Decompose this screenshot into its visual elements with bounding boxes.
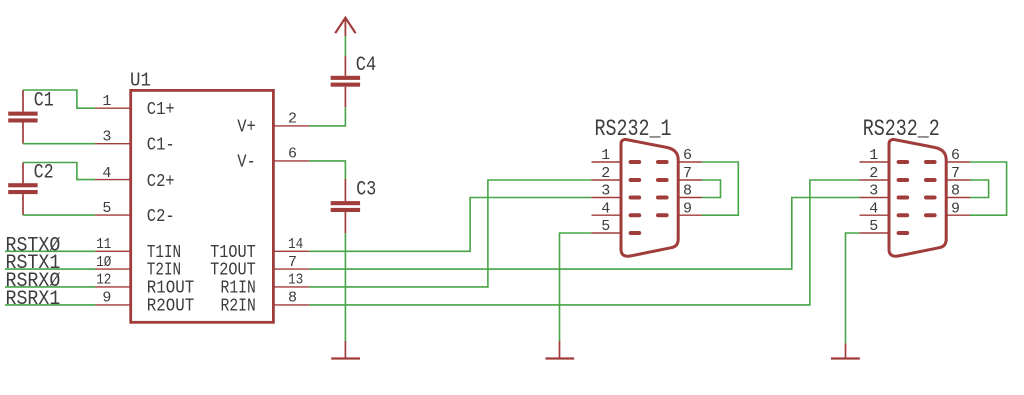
- RS232_1 pad 4: [629, 213, 642, 217]
- U1 label: [130, 70, 151, 92]
- pin 14 number: [288, 236, 303, 253]
- svg-text:3: 3: [102, 129, 111, 146]
- RS232_2 pin 6 number: [951, 147, 960, 164]
- net label RSRX1: [6, 288, 61, 311]
- wire RS232_2 pin5 to ground: [846, 233, 860, 344]
- svg-text:1: 1: [102, 93, 111, 110]
- C1 label: [34, 90, 54, 113]
- wire pin13 to RS232_1 pin2: [310, 180, 592, 287]
- wire RS232_2 jumper pins 7-8: [970, 180, 989, 198]
- pin 5 stub: [95, 214, 131, 216]
- svg-text:RSRX1: RSRX1: [6, 288, 61, 311]
- net label RSTX1: [6, 252, 61, 275]
- RS232_1 pin 3 number: [601, 183, 610, 200]
- ground below RS232_2: [831, 344, 860, 359]
- svg-text:1Ø: 1Ø: [96, 254, 111, 271]
- RS232_2 pin 4 stub: [860, 214, 890, 216]
- svg-text:9: 9: [102, 290, 111, 307]
- svg-text:7: 7: [288, 254, 297, 271]
- svg-text:V+: V+: [237, 117, 256, 138]
- RS232_2 pin 3 number: [869, 183, 878, 200]
- RS232_2 pad 7: [924, 178, 937, 182]
- RS232_2 pin 4 number: [869, 200, 878, 217]
- RS232_2 pad 5: [897, 231, 910, 235]
- RS232_1 pin 1 number: [601, 147, 610, 164]
- RS232_1 pin 6 stub: [678, 161, 702, 163]
- svg-text:2: 2: [288, 111, 297, 128]
- U1 pin name R1OUT: [147, 277, 194, 298]
- svg-text:11: 11: [96, 236, 111, 253]
- svg-text:9: 9: [683, 200, 692, 217]
- svg-text:7: 7: [951, 165, 960, 182]
- RS232_1 pin 7 stub: [678, 179, 702, 181]
- svg-text:R2IN: R2IN: [221, 295, 256, 316]
- RS232_2 pin 7 stub: [946, 179, 970, 181]
- connector RS232_1 body: [621, 139, 678, 256]
- U1 pin name T1IN: [147, 242, 181, 263]
- svg-text:8: 8: [288, 290, 297, 307]
- svg-text:5: 5: [869, 218, 878, 235]
- RS232_1 pin 2 number: [601, 165, 610, 182]
- C2 label: [34, 161, 54, 184]
- wire RS232_1 pin5 to ground: [560, 233, 592, 341]
- U1 pin name V+: [237, 117, 256, 138]
- RS232_1 pin 5 stub: [592, 232, 622, 234]
- svg-text:V-: V-: [237, 152, 256, 173]
- pin 3 number: [102, 129, 111, 146]
- U1 pin name T1OUT: [210, 242, 256, 263]
- pin 9 number: [102, 290, 111, 307]
- RS232_1 pad 2: [629, 178, 642, 182]
- svg-text:13: 13: [288, 272, 303, 289]
- RS232_1 pin 5 number: [601, 218, 610, 235]
- svg-text:C2: C2: [34, 161, 54, 184]
- wire RSTX0 to pin11: [5, 250, 96, 252]
- RS232_1 label: [595, 116, 672, 142]
- RS232_1 pin 6 number: [683, 147, 692, 164]
- RS232_2 pad 9: [924, 213, 937, 217]
- U1 pin name C1-: [147, 135, 175, 156]
- RS232_1 pin 9 number: [683, 200, 692, 217]
- svg-text:2: 2: [869, 165, 878, 182]
- svg-text:3: 3: [601, 183, 610, 200]
- svg-text:4: 4: [601, 200, 610, 217]
- pin 12 number: [96, 272, 111, 289]
- svg-text:9: 9: [951, 200, 960, 217]
- pin 5 number: [102, 200, 111, 217]
- IC U1 box: [131, 90, 274, 322]
- svg-text:5: 5: [601, 218, 610, 235]
- wire RSRX1 to pin9: [5, 304, 96, 306]
- RS232_2 pin 8 number: [951, 183, 960, 200]
- wire RS232_1 jumper pins 7-8: [702, 180, 721, 198]
- svg-text:8: 8: [951, 183, 960, 200]
- VCC supply symbol: [335, 18, 355, 37]
- RS232_2 pad 1: [897, 160, 910, 164]
- pin 3 stub: [95, 143, 131, 145]
- RS232_1 pad 5: [629, 231, 642, 235]
- RS232_1 pin 1 stub: [592, 161, 622, 163]
- pin 1 stub: [95, 107, 131, 109]
- RS232_1 pad 3: [629, 196, 642, 200]
- svg-text:U1: U1: [130, 70, 151, 92]
- U1 pin name C2+: [147, 171, 175, 192]
- svg-text:3: 3: [869, 183, 878, 200]
- RS232_2 pin 7 number: [951, 165, 960, 182]
- net label RSRX0: [6, 270, 61, 293]
- svg-text:C1-: C1-: [147, 135, 175, 156]
- RS232_2 pin 5 stub: [860, 232, 890, 234]
- capacitor C3: [331, 179, 360, 233]
- RS232_2 pin 5 number: [869, 218, 878, 235]
- ground below RS232_1: [545, 341, 574, 359]
- pin 6 stub: [273, 160, 309, 162]
- svg-text:C1+: C1+: [147, 99, 175, 120]
- wire pin6 to C3: [310, 161, 346, 179]
- connector RS232_2 body: [889, 139, 946, 256]
- U1 pin name V-: [237, 152, 256, 173]
- svg-text:C4: C4: [356, 54, 377, 77]
- svg-text:C1: C1: [34, 90, 54, 113]
- RS232_2 pin 3 stub: [860, 197, 890, 199]
- wire C2 top to pin4: [23, 163, 95, 180]
- RS232_1 pin 7 number: [683, 165, 692, 182]
- U1 pin name R2IN: [221, 295, 256, 316]
- RS232_1 pin 9 stub: [678, 214, 702, 216]
- svg-text:C2-: C2-: [147, 206, 175, 227]
- wire C4 to VCC: [344, 36, 346, 56]
- RS232_1 pin 3 stub: [592, 197, 622, 199]
- RS232_2 pin 9 stub: [946, 214, 970, 216]
- RS232_1 pad 8: [656, 196, 669, 200]
- RS232_2 pad 4: [897, 213, 910, 217]
- RS232_2 pad 8: [924, 196, 937, 200]
- svg-text:7: 7: [683, 165, 692, 182]
- RS232_1 pad 6: [656, 160, 669, 164]
- RS232_2 pad 6: [924, 160, 937, 164]
- pin 7 stub: [273, 268, 309, 270]
- pin 12 stub: [95, 286, 131, 288]
- RS232_2 pin 8 stub: [946, 197, 970, 199]
- ground below C3: [331, 341, 360, 359]
- RS232_1 pin 4 stub: [592, 214, 622, 216]
- pin 13 number: [288, 272, 303, 289]
- wire C3 to ground: [344, 233, 346, 341]
- U1 pin name C2-: [147, 206, 175, 227]
- RS232_2 pad 2: [897, 178, 910, 182]
- wire RS232_2 jumper pins 6-9: [970, 162, 1007, 215]
- U1 pin name R2OUT: [147, 295, 194, 316]
- U1 pin name R1IN: [221, 277, 256, 298]
- pin 4 number: [102, 165, 111, 182]
- RS232_1 pin 4 number: [601, 200, 610, 217]
- pin 14 stub: [273, 250, 309, 252]
- C4 label: [356, 54, 377, 77]
- svg-text:12: 12: [96, 272, 111, 289]
- svg-text:R2OUT: R2OUT: [147, 295, 194, 316]
- U1 pin name C1+: [147, 99, 175, 120]
- pin 7 number: [288, 254, 297, 271]
- pin 8 number: [288, 290, 297, 307]
- RS232_1 pad 7: [656, 178, 669, 182]
- svg-text:5: 5: [102, 200, 111, 217]
- svg-text:14: 14: [288, 236, 303, 253]
- wire RS232_1 jumper pins 6-9: [702, 162, 738, 215]
- RS232_2 pin 1 number: [869, 147, 878, 164]
- svg-text:2: 2: [601, 165, 610, 182]
- svg-text:6: 6: [288, 146, 297, 163]
- RS232_1 pad 1: [629, 160, 642, 164]
- svg-text:C3: C3: [356, 179, 376, 202]
- pin 1 number: [102, 93, 111, 110]
- pin 2 number: [288, 111, 297, 128]
- U1 pin name T2IN: [147, 260, 181, 281]
- pin 8 stub: [273, 304, 309, 306]
- U1 pin name T2OUT: [210, 260, 256, 281]
- svg-text:4: 4: [102, 165, 111, 182]
- RS232_1 pad 9: [656, 213, 669, 217]
- pin 13 stub: [273, 286, 309, 288]
- wire C2 bottom to pin5: [23, 214, 95, 216]
- RS232_2 pin 1 stub: [860, 161, 890, 163]
- wire C1 top to pin1: [23, 90, 95, 108]
- pin 11 number: [96, 236, 111, 253]
- pin 10 number: [96, 254, 111, 271]
- RS232_1 pin 2 stub: [592, 179, 622, 181]
- capacitor C4: [331, 56, 360, 107]
- pin 10 stub: [95, 268, 131, 270]
- svg-text:RS232_2: RS232_2: [863, 116, 940, 142]
- pin 2 stub: [273, 125, 309, 127]
- pin 9 stub: [95, 304, 131, 306]
- wire pin14 to RS232_1 pin3: [310, 198, 592, 252]
- wire RSRX0 to pin12: [5, 286, 96, 288]
- RS232_1 pin 8 number: [683, 183, 692, 200]
- C3 label: [356, 179, 376, 202]
- RS232_2 pad 3: [897, 196, 910, 200]
- pin 4 stub: [95, 179, 131, 181]
- pin 6 number: [288, 146, 297, 163]
- svg-text:4: 4: [869, 200, 878, 217]
- net label RSTX0: [6, 234, 61, 257]
- wire pin8 to RS232_2 pin2: [310, 180, 860, 305]
- RS232_1 pin 8 stub: [678, 197, 702, 199]
- svg-text:6: 6: [951, 147, 960, 164]
- capacitor C2: [8, 163, 37, 216]
- RS232_2 pin 9 number: [951, 200, 960, 217]
- svg-text:C2+: C2+: [147, 171, 175, 192]
- pin 11 stub: [95, 250, 131, 252]
- capacitor C1: [8, 90, 37, 144]
- RS232_2 pin 2 stub: [860, 179, 890, 181]
- svg-text:RS232_1: RS232_1: [595, 116, 672, 142]
- wire pin2 to C4: [310, 107, 346, 126]
- svg-text:1: 1: [601, 147, 610, 164]
- wire pin7 to RS232_2 pin3: [310, 198, 860, 270]
- RS232_2 label: [863, 116, 940, 142]
- wire C1 bottom to pin3: [23, 143, 95, 145]
- svg-text:1: 1: [869, 147, 878, 164]
- RS232_2 pin 6 stub: [946, 161, 970, 163]
- svg-text:6: 6: [683, 147, 692, 164]
- svg-text:8: 8: [683, 183, 692, 200]
- wire RSTX1 to pin10: [5, 268, 96, 270]
- RS232_2 pin 2 number: [869, 165, 878, 182]
